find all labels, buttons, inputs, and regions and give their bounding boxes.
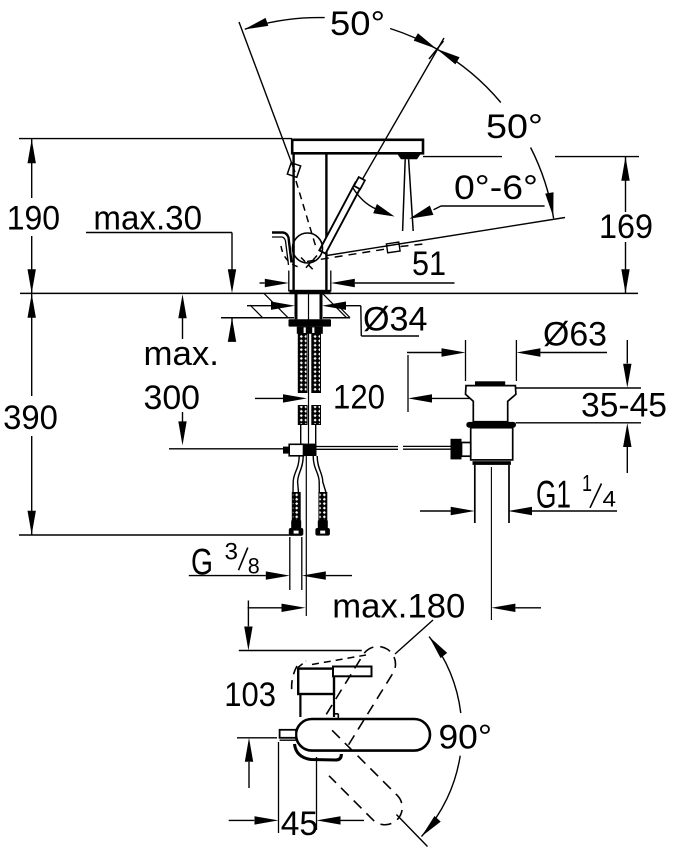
svg-text:120: 120	[333, 379, 385, 417]
faucet center extension	[305, 456, 307, 616]
aerator outlet	[397, 154, 421, 160]
dim G1 line right	[532, 510, 617, 512]
svg-text:390: 390	[3, 399, 58, 437]
dashed handle arc bottom	[281, 246, 302, 268]
dashed cross under pivot	[301, 256, 317, 272]
plan top ref line	[239, 650, 362, 652]
drain seal ring	[466, 422, 516, 428]
label 120	[333, 379, 385, 417]
pipe to drain lower a	[317, 448, 399, 450]
plan dashed spout	[312, 655, 366, 665]
dim 120 line right	[432, 397, 470, 399]
arrowhead 90 bottom	[422, 816, 441, 837]
pivot circle	[293, 233, 323, 263]
lever solid	[319, 177, 365, 254]
arrowhead 90 top	[429, 637, 447, 659]
dim 45 arrow right	[317, 816, 341, 824]
shank center line	[308, 294, 310, 444]
dim 103 upper line	[247, 601, 249, 627]
max.30 arrow up	[228, 318, 236, 342]
arrowhead at crossing from left arc	[414, 33, 437, 49]
label G	[191, 542, 213, 583]
plan dashed block corner	[298, 661, 306, 668]
plan escutcheon stadium	[296, 719, 430, 751]
stud left knurl	[292, 493, 300, 521]
lever-down axis line (-9deg)	[327, 218, 565, 256]
pipe to drain upper a	[317, 446, 399, 448]
G38 fraction slash	[239, 548, 248, 571]
drain plug cap	[475, 381, 505, 385]
svg-text:G: G	[191, 542, 213, 583]
water stream line 0 deg	[403, 159, 406, 231]
plan handle block	[298, 669, 334, 694]
svg-text:190: 190	[7, 199, 60, 237]
plan supply stub	[280, 730, 296, 738]
O63 extension left	[465, 340, 467, 381]
O34 leader vertical	[360, 306, 363, 336]
max300 upper tail	[182, 318, 184, 339]
drain tailpipe right	[508, 465, 510, 523]
svg-text:Ø63: Ø63	[543, 316, 607, 354]
max.30 arrow down	[228, 269, 236, 293]
svg-text:50°: 50°	[330, 5, 385, 43]
plan dashed arc near block	[292, 666, 297, 693]
label 390	[3, 399, 58, 437]
drain ref line top	[516, 387, 641, 389]
hose end baseline	[19, 534, 302, 536]
dim 45 line right	[341, 819, 365, 821]
arrowhead 0-6 right	[409, 206, 433, 219]
dim 169 arrow up	[621, 157, 629, 181]
counter hatch left 1	[264, 293, 288, 317]
dim 190 arrow down	[28, 269, 36, 293]
pipe to drain lower b	[403, 448, 451, 450]
svg-text:300: 300	[144, 379, 201, 417]
plan neck right	[333, 694, 335, 717]
dim 169 line	[625, 157, 627, 294]
handle axis line upper-left (50deg ref)	[239, 22, 295, 172]
pipe to drain upper b	[403, 445, 451, 447]
dim G38 line right	[326, 575, 352, 577]
plan stub ref line	[237, 737, 277, 739]
dashed lever position upper-left	[296, 181, 317, 249]
arc 50deg left segment b	[390, 29, 437, 49]
label G1 sup 1	[582, 470, 592, 496]
drain ref line bottom	[516, 422, 641, 424]
arrowhead 0-6 left	[373, 204, 394, 217]
svg-text:8: 8	[248, 554, 260, 579]
max300 arrow down	[178, 421, 186, 445]
plan base crescent	[295, 744, 342, 760]
dim O34 arrow left	[271, 302, 295, 310]
G38 extension right	[301, 537, 303, 590]
label O63	[543, 316, 607, 354]
dim O34 line right	[346, 305, 361, 307]
45 extension right	[316, 757, 318, 830]
svg-text:3: 3	[225, 539, 239, 566]
leader 0-6	[441, 205, 545, 207]
svg-text:Ø34: Ø34	[363, 301, 428, 339]
plan dashed handle down-right	[329, 730, 402, 824]
hose left	[293, 456, 303, 493]
label 50deg right	[486, 108, 543, 146]
label max.	[144, 335, 220, 373]
leader 0-6 kink	[434, 206, 442, 210]
dim 35-45 arrow down	[623, 364, 631, 388]
label 90deg	[439, 719, 493, 757]
51 extension right	[330, 271, 332, 292]
svg-text:169: 169	[599, 208, 653, 246]
dim O63 line right	[540, 352, 607, 354]
label 190	[7, 199, 60, 237]
svg-text:50°: 50°	[486, 108, 543, 146]
dim O34 arrow right	[322, 302, 346, 310]
dim max180 arrow left	[282, 604, 306, 612]
arc 50deg right segment a	[437, 49, 501, 103]
wire spout top reference line	[19, 138, 292, 140]
counter hatch left 2	[250, 305, 263, 318]
45 extension left	[278, 742, 280, 833]
drain rod knob	[451, 439, 462, 460]
dim O63 line left	[407, 352, 442, 354]
faucet body left edge	[292, 153, 294, 290]
counter hatch right 1	[323, 293, 347, 317]
dashed lever-down end cap	[386, 242, 400, 253]
dim 103 arrow up	[245, 738, 253, 762]
dim 45 line left	[229, 819, 255, 821]
hose lead left	[300, 425, 302, 444]
svg-text:G1: G1	[536, 474, 571, 517]
drain coupling	[473, 461, 511, 465]
faucet spout top bar	[292, 140, 423, 154]
washer	[289, 319, 332, 326]
plan axis ext up	[395, 620, 433, 654]
label 0-6deg	[454, 169, 538, 207]
ref line aerator level left	[423, 156, 502, 158]
svg-text:1: 1	[582, 470, 592, 496]
svg-text:90°: 90°	[439, 719, 493, 757]
arrowhead 50deg arc bottom end	[545, 192, 553, 216]
dim 120 arrow right	[408, 394, 432, 402]
label max.180	[332, 588, 465, 626]
counter hatch right 2	[338, 306, 350, 318]
dim 51 arrow left	[265, 279, 289, 287]
label 35-45	[581, 387, 667, 425]
svg-text:4: 4	[603, 487, 617, 512]
label 45	[281, 805, 318, 843]
dim 390 arrow up	[28, 294, 36, 318]
handle axis line upper-right (50deg ref)	[362, 38, 444, 180]
plan axis ext down	[396, 815, 427, 847]
dim 120 extension	[407, 355, 409, 412]
dim G1 arrow right	[508, 507, 532, 515]
dim 35-45 arrow up	[623, 423, 631, 447]
drain center line	[490, 467, 492, 620]
label G1	[536, 474, 571, 517]
faucet body right edge	[325, 153, 327, 290]
plan neck step	[334, 714, 338, 719]
dim G1 line left	[420, 510, 451, 512]
dim 190 line	[31, 139, 33, 293]
label G38 sub 8	[248, 554, 260, 579]
dim 190 arrow up	[28, 139, 36, 163]
max300 lower line	[182, 412, 184, 422]
ref line aerator level right	[555, 156, 639, 158]
dim 51 line right	[355, 282, 455, 284]
dim G38 arrow left	[266, 571, 290, 579]
label 51	[412, 245, 446, 283]
dim 169 arrow down	[621, 269, 629, 293]
counter bottom line left	[221, 317, 294, 319]
label 103	[224, 676, 276, 714]
max300 arrow up	[178, 294, 186, 318]
stud right foot	[315, 528, 330, 536]
drain plug head	[466, 386, 516, 422]
arc 50deg left segment a	[245, 18, 325, 30]
plan dashed handle up-right	[326, 647, 395, 746]
svg-text:45: 45	[281, 805, 318, 843]
O63 extension right	[515, 340, 517, 381]
plan spout bar	[333, 667, 372, 677]
dim 120 arrow left	[283, 394, 307, 402]
handle hook (down position)	[272, 233, 292, 266]
dim 120 line left	[255, 397, 283, 399]
G38 extension left	[289, 537, 291, 590]
O34 leader underline	[361, 335, 419, 337]
max.30 leader underline	[86, 232, 232, 234]
label 169	[599, 208, 653, 246]
threaded shank left upper	[298, 334, 307, 393]
51 extension left	[288, 271, 290, 292]
counter top line	[20, 292, 638, 294]
dim G38 line left	[189, 575, 266, 577]
base flange	[290, 290, 331, 294]
stud right knurl	[319, 493, 327, 521]
dim 51 arrow right	[331, 279, 355, 287]
label G1 sub 4	[603, 487, 617, 512]
stud left base	[291, 521, 301, 529]
max.30 lower tail	[231, 318, 233, 341]
tick across 50deg crossing	[429, 41, 444, 59]
drain rod socket	[462, 443, 471, 457]
dashed lever-down position	[307, 249, 386, 262]
label 300	[144, 379, 201, 417]
label 50deg upper	[330, 5, 385, 43]
plan stub underline	[280, 739, 297, 741]
svg-text:0°-6°: 0°-6°	[454, 169, 538, 207]
locknut	[297, 327, 323, 334]
svg-text:max.: max.	[144, 335, 220, 373]
svg-text:max.180: max.180	[332, 588, 465, 626]
threaded shank right lower	[312, 406, 321, 425]
svg-text:35-45: 35-45	[581, 387, 667, 425]
svg-text:103: 103	[224, 676, 276, 714]
T fitting white box	[289, 444, 303, 456]
T fitting black box	[304, 444, 317, 456]
dim max180 arrow right	[491, 604, 515, 612]
drain tailpipe left	[474, 465, 476, 523]
arrowhead at crossing from right arc	[437, 49, 460, 65]
dim O63 arrow right	[516, 348, 540, 356]
dim G38 arrow right	[302, 571, 326, 579]
drain body	[471, 428, 513, 460]
dashed lever-down tail	[401, 244, 429, 247]
stud right base	[318, 521, 328, 529]
svg-text:51: 51	[412, 245, 446, 283]
G1 fraction slash	[590, 484, 602, 508]
counter bottom line right	[323, 317, 350, 319]
arc 90deg upper	[429, 637, 461, 714]
dim G1 arrow left	[451, 507, 475, 515]
dim 103 lower tail	[248, 762, 250, 788]
dim 390 line	[31, 294, 33, 535]
dim 51 line left	[260, 282, 265, 284]
stud left foot	[289, 528, 304, 536]
dim max180 line right	[515, 607, 541, 609]
dim O34 line left	[247, 305, 271, 307]
arc 90deg lower	[422, 756, 461, 837]
hose right	[313, 456, 326, 493]
dim 35-45 upper line	[626, 340, 628, 363]
dim 390 arrow down	[28, 511, 36, 535]
dim 35-45 lower line	[626, 447, 628, 473]
dim 45 arrow left	[255, 816, 279, 824]
max300 bottom ref line	[169, 448, 287, 450]
arc 50deg right segment b	[531, 148, 554, 219]
dim max180 line left	[248, 607, 282, 609]
plan neck left	[299, 694, 301, 717]
water stream line 6 deg	[409, 159, 414, 231]
label max.30	[93, 199, 202, 237]
arc 0-6deg left	[353, 188, 376, 209]
hose lead right	[315, 425, 317, 444]
dashed lever end cap upper-left	[287, 163, 300, 178]
max.30 vertical	[231, 233, 233, 270]
shank wall right	[320, 294, 323, 319]
svg-text:max.30: max.30	[93, 199, 202, 237]
threaded shank right upper	[312, 334, 321, 393]
dim O63 arrow left	[442, 348, 466, 356]
label O34	[363, 301, 428, 339]
dim 103 arrow down	[244, 627, 252, 651]
shank wall left	[295, 294, 298, 319]
threaded shank left lower	[298, 406, 307, 425]
arrowhead 50deg arc left end	[244, 18, 268, 30]
T fitting nub	[283, 447, 289, 454]
label G38 sup 3	[225, 539, 239, 566]
